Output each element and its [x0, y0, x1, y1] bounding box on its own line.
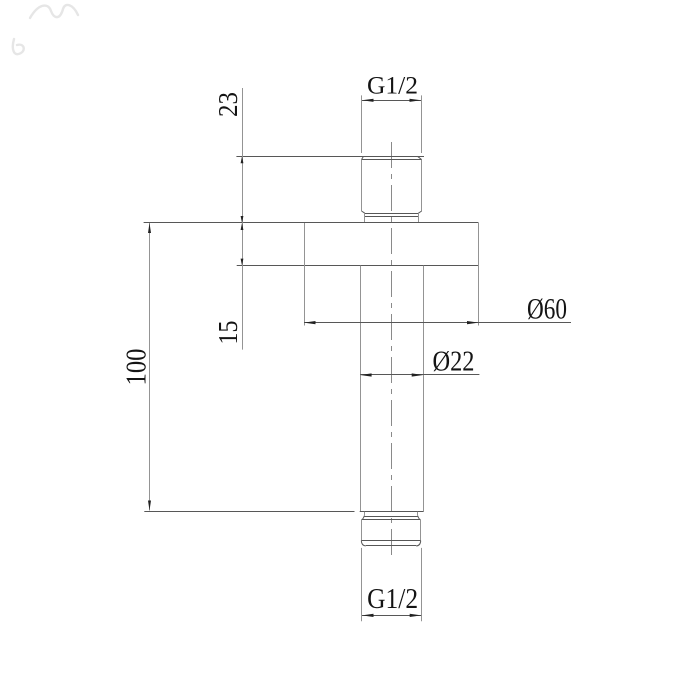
fitting chamfer right: [418, 156, 422, 159]
fitting top edge / 23 extension line: [236, 156, 424, 158]
arrow 15 top: [241, 223, 244, 230]
cap bottom left corner: [361, 541, 366, 546]
cap fillet right: [418, 516, 421, 520]
svg-text:100: 100: [122, 349, 153, 386]
cap neck lower line: [364, 516, 417, 518]
dimension line G1/2 top: [362, 100, 421, 102]
cap bottom right corner: [416, 541, 421, 546]
extension line top-left: [361, 95, 363, 153]
extension line top-right: [421, 95, 423, 153]
arrow 100 bottom: [148, 501, 151, 511]
cap fillet left: [362, 516, 365, 520]
dimension line 100 vertical: [149, 223, 151, 511]
arrow right: [410, 99, 422, 102]
cap neck right: [417, 512, 419, 516]
dimension line 23/15 vertical: [242, 88, 244, 350]
flange top edge with left extension: [144, 222, 479, 224]
fitting bottom edge: [365, 213, 419, 215]
svg-text:Ø60: Ø60: [527, 293, 567, 326]
centerline: [391, 137, 393, 559]
svg-text:G1/2: G1/2: [367, 73, 418, 100]
cap lower line: [361, 540, 420, 542]
cap bottom edge: [366, 545, 416, 547]
fitting chamfer bottom edge: [362, 159, 422, 161]
fitting bottom chamfer left: [362, 211, 365, 213]
pipe right side: [423, 266, 425, 512]
extension line bottom-right: [421, 548, 423, 621]
arrow left: [362, 99, 374, 102]
dimension line D22: [360, 374, 479, 376]
cap right side: [420, 519, 422, 540]
faint corner smudge A: [30, 5, 78, 18]
fitting chamfer left: [362, 156, 364, 159]
arrow bottom left: [362, 614, 374, 617]
arrow D22 right: [412, 373, 424, 376]
svg-text:Ø22: Ø22: [433, 346, 475, 378]
fitting left side: [361, 160, 363, 211]
arrow D60 right: [467, 321, 479, 324]
flange right side + ext: [478, 223, 480, 326]
faint corner smudge B: [13, 39, 24, 54]
arrow bottom right: [410, 614, 422, 617]
svg-text:G1/2: G1/2: [367, 584, 418, 615]
fitting right side: [421, 160, 423, 211]
bottom extension line for 100: [144, 511, 354, 513]
fitting washer line: [365, 216, 418, 218]
arrow 15 bottom: [241, 259, 244, 266]
arrow 23 top: [241, 156, 244, 163]
svg-text:15: 15: [213, 321, 243, 345]
arrow D60 left: [304, 321, 316, 324]
arrow D22 left: [360, 373, 372, 376]
cap top edge: [362, 519, 421, 521]
cap left side: [361, 519, 363, 540]
svg-text:23: 23: [213, 92, 243, 117]
flange bottom edge with left extension: [237, 265, 479, 267]
dimension line G1/2 bottom: [362, 615, 421, 617]
extension line bottom-left: [361, 548, 363, 621]
cap neck left: [364, 512, 366, 516]
arrow 23 bottom: [241, 216, 244, 223]
dimension line D60: [304, 322, 571, 324]
arrow 100 top: [148, 223, 151, 233]
fitting neck left: [364, 213, 366, 222]
pipe left side: [360, 266, 362, 512]
fitting neck right: [418, 213, 420, 222]
fitting bottom chamfer right: [418, 211, 421, 213]
flange left side + ext: [304, 223, 306, 326]
pipe bottom edge: [360, 511, 424, 513]
